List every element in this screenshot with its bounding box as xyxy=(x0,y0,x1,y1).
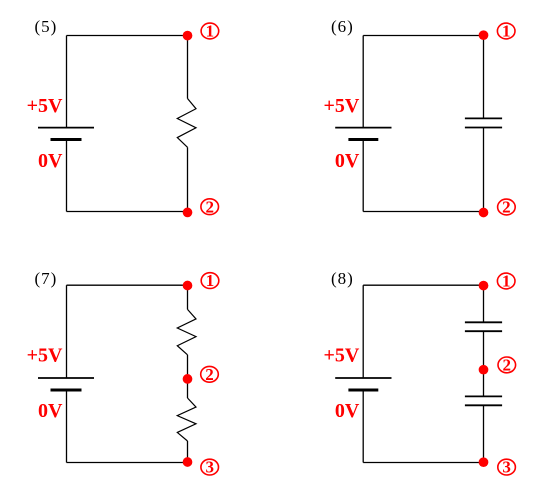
svg-text:(5): (5) xyxy=(35,17,58,36)
svg-text:2: 2 xyxy=(205,365,214,384)
svg-text:+5V: +5V xyxy=(323,95,359,117)
svg-text:2: 2 xyxy=(502,198,511,217)
svg-text:0V: 0V xyxy=(38,150,63,172)
svg-text:+5V: +5V xyxy=(323,345,359,367)
svg-text:(6): (6) xyxy=(331,17,354,36)
svg-text:2: 2 xyxy=(205,197,214,216)
svg-text:3: 3 xyxy=(502,458,511,477)
svg-text:1: 1 xyxy=(206,22,215,41)
svg-text:3: 3 xyxy=(205,458,214,477)
svg-text:+5V: +5V xyxy=(27,345,63,367)
svg-text:1: 1 xyxy=(502,22,511,41)
svg-text:0V: 0V xyxy=(335,150,360,172)
svg-text:2: 2 xyxy=(503,356,512,375)
svg-text:1: 1 xyxy=(206,271,215,290)
svg-text:(8): (8) xyxy=(331,269,354,288)
svg-text:(7): (7) xyxy=(35,269,58,288)
svg-text:1: 1 xyxy=(502,272,511,291)
svg-text:0V: 0V xyxy=(335,400,360,422)
svg-text:+5V: +5V xyxy=(27,95,63,117)
svg-text:0V: 0V xyxy=(38,400,63,422)
